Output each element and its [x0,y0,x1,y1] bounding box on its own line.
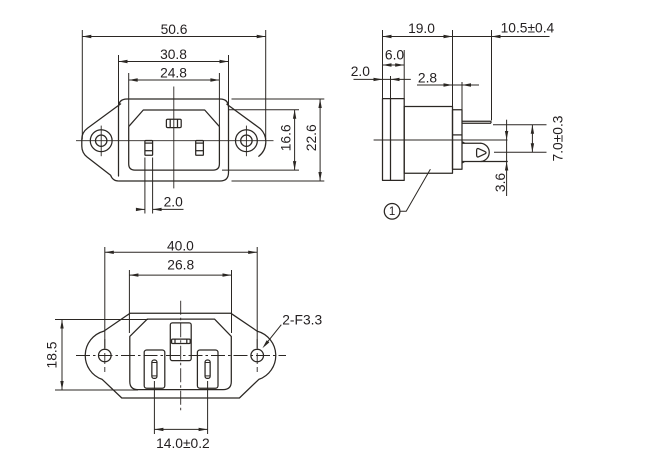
svg-text:16.6: 16.6 [278,124,293,151]
svg-text:3.6: 3.6 [493,173,508,193]
svg-text:26.8: 26.8 [167,257,194,272]
svg-text:14.0±0.2: 14.0±0.2 [156,436,210,450]
svg-text:2.0: 2.0 [351,64,371,79]
svg-text:19.0: 19.0 [408,21,435,36]
svg-text:2.0: 2.0 [164,194,184,209]
svg-text:7.0±0.3: 7.0±0.3 [551,115,566,161]
svg-text:18.5: 18.5 [45,341,60,368]
svg-text:6.0: 6.0 [385,47,405,62]
svg-text:40.0: 40.0 [167,238,194,253]
svg-text:2-F3.3: 2-F3.3 [282,313,322,328]
svg-text:30.8: 30.8 [160,47,187,62]
svg-text:22.6: 22.6 [304,124,319,151]
svg-text:10.5±0.4: 10.5±0.4 [501,20,555,35]
svg-text:2.8: 2.8 [418,71,438,86]
svg-text:1: 1 [389,206,395,218]
svg-text:24.8: 24.8 [160,66,187,81]
svg-text:50.6: 50.6 [161,22,188,37]
